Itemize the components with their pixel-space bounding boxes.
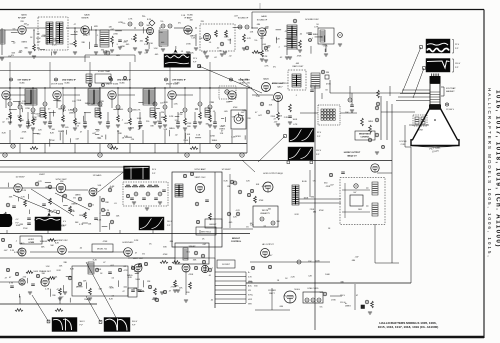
svg-text:4.7K: 4.7K [247, 38, 252, 40]
svg-text:4.7K: 4.7K [18, 253, 23, 255]
svg-text:5%: 5% [273, 66, 276, 68]
svg-text:6AQ5: 6AQ5 [263, 78, 269, 81]
svg-text:8.2K: 8.2K [265, 50, 270, 52]
svg-text:6BQ6 GT: 6BQ6 GT [347, 156, 357, 158]
svg-text:8.2K: 8.2K [109, 298, 114, 300]
svg-text:300 V: 300 V [80, 321, 86, 323]
svg-text:1.5K: 1.5K [144, 44, 149, 46]
svg-text:1.5K: 1.5K [277, 97, 282, 99]
svg-text:470K: 470K [319, 210, 324, 212]
svg-text:5%: 5% [6, 118, 9, 120]
svg-text:6CB6: 6CB6 [239, 83, 245, 85]
svg-text:1ST VIDEO IF: 1ST VIDEO IF [17, 80, 31, 82]
svg-text:HOR OUTPUT 6BQ6: HOR OUTPUT 6BQ6 [263, 173, 283, 175]
svg-text:ION TRAP: ION TRAP [446, 87, 456, 90]
svg-text:25 V: 25 V [455, 44, 460, 46]
svg-text:5%: 5% [320, 307, 323, 309]
svg-text:4.7K: 4.7K [9, 283, 14, 285]
svg-text:8.2K: 8.2K [15, 191, 20, 193]
svg-text:1MEG: 1MEG [47, 240, 53, 242]
svg-text:470K: 470K [297, 56, 302, 58]
svg-text:100K: 100K [33, 271, 38, 273]
svg-text:35 V: 35 V [317, 132, 322, 134]
svg-text:5%: 5% [160, 21, 163, 23]
svg-text:4.7K: 4.7K [21, 196, 26, 198]
svg-text:470K: 470K [99, 101, 104, 103]
svg-text:100K: 100K [43, 241, 48, 243]
svg-text:5%: 5% [73, 198, 76, 200]
svg-text:100K: 100K [137, 118, 142, 120]
svg-text:RECT: RECT [269, 293, 275, 295]
svg-text:8.2K: 8.2K [164, 102, 169, 104]
svg-text:100K: 100K [277, 115, 282, 117]
svg-text:270K: 270K [331, 300, 336, 302]
svg-text:4.7K: 4.7K [105, 210, 110, 212]
svg-text:4.7K: 4.7K [19, 249, 24, 251]
svg-text:2.2K: 2.2K [22, 190, 27, 192]
svg-text:VERT HOLD: VERT HOLD [201, 232, 212, 234]
svg-text:4.7K: 4.7K [79, 224, 84, 226]
svg-text:5%: 5% [142, 253, 145, 255]
svg-text:SYNC: SYNC [248, 295, 254, 297]
svg-text:8.2K: 8.2K [70, 269, 75, 271]
svg-text:MODEL 700: MODEL 700 [97, 249, 107, 251]
svg-text:2.2K: 2.2K [263, 56, 268, 58]
svg-text:5U4G: 5U4G [294, 289, 300, 291]
svg-text:GND: GND [248, 281, 253, 283]
svg-text:2.2K: 2.2K [262, 35, 267, 37]
svg-text:SOUND DISC: SOUND DISC [305, 19, 319, 21]
svg-text:100K: 100K [31, 113, 36, 115]
svg-text:100K: 100K [293, 119, 298, 121]
svg-text:SYNC AMP: SYNC AMP [194, 168, 206, 171]
svg-text:4.7K: 4.7K [38, 181, 43, 183]
svg-text:270K: 270K [19, 120, 24, 122]
svg-text:1MEG: 1MEG [69, 112, 75, 114]
svg-text:1.5K: 1.5K [181, 15, 186, 17]
svg-text:1MEG: 1MEG [345, 306, 351, 308]
svg-text:270K: 270K [209, 102, 214, 104]
svg-text:100K: 100K [325, 274, 330, 276]
svg-text:1.5K: 1.5K [173, 104, 178, 106]
svg-text:4.7K: 4.7K [236, 210, 241, 212]
svg-text:2.2K: 2.2K [45, 288, 50, 290]
svg-text:VERT OUT: VERT OUT [133, 258, 144, 260]
svg-text:POWER: POWER [268, 290, 276, 292]
svg-text:1MEG: 1MEG [84, 299, 90, 301]
svg-text:HALLICRAFTERS MODELS 1005, 100: HALLICRAFTERS MODELS 1005, 1006, 1015, [487, 88, 492, 259]
svg-text:HORIZ OUTPUT: HORIZ OUTPUT [344, 152, 361, 154]
svg-text:6AU6: 6AU6 [84, 14, 90, 17]
svg-text:2.2K: 2.2K [256, 96, 261, 98]
svg-text:5%: 5% [313, 181, 316, 183]
svg-text:2.2K: 2.2K [124, 136, 129, 138]
svg-text:6AC7: 6AC7 [277, 86, 283, 89]
svg-text:1/2 6SN7: 1/2 6SN7 [221, 169, 231, 171]
svg-text:470K: 470K [118, 22, 123, 24]
svg-text:1.5K: 1.5K [196, 135, 201, 137]
svg-text:HEIGHT: HEIGHT [209, 224, 217, 226]
svg-text:2.2K: 2.2K [284, 117, 289, 119]
svg-text:1015, 1016, 1017, 1018, 1019 (: 1015, 1016, 1017, 1018, 1019 (Ch. A11000… [378, 325, 439, 329]
svg-text:8.2K: 8.2K [74, 31, 79, 33]
svg-text:1.5K: 1.5K [149, 43, 154, 45]
svg-text:2ND VIDEO IF: 2ND VIDEO IF [62, 80, 76, 82]
svg-text:1MEG: 1MEG [71, 203, 77, 205]
svg-text:VERT OSC: VERT OSC [194, 177, 206, 179]
svg-text:WIDTH: WIDTH [262, 210, 269, 212]
svg-text:6CB6: 6CB6 [19, 83, 25, 85]
svg-text:12,500 V: 12,500 V [446, 109, 455, 111]
svg-text:100K: 100K [135, 279, 140, 281]
svg-text:1016, 1017, 1018, 1019, (Ch. A: 1016, 1017, 1018, 1019, (Ch. A11000) [495, 90, 500, 248]
svg-text:HORIZ AFC: HORIZ AFC [122, 241, 134, 244]
svg-text:1.5K: 1.5K [110, 186, 115, 188]
svg-text:100K: 100K [315, 261, 320, 263]
svg-text:BRIGHTNESS: BRIGHTNESS [359, 134, 372, 136]
svg-text:8.2K: 8.2K [224, 180, 229, 182]
svg-text:1MEG: 1MEG [75, 194, 81, 196]
svg-text:1MEG: 1MEG [58, 131, 64, 133]
svg-text:1MEG: 1MEG [79, 215, 85, 217]
svg-text:270K: 270K [171, 286, 176, 288]
svg-text:1/2 6AL5: 1/2 6AL5 [93, 174, 103, 177]
svg-text:BRIGHT: BRIGHT [232, 238, 241, 240]
svg-text:470K: 470K [187, 123, 192, 125]
svg-text:270K: 270K [83, 35, 88, 37]
svg-text:8.2K: 8.2K [134, 240, 139, 242]
svg-text:470K: 470K [22, 132, 27, 134]
svg-text:4.7K: 4.7K [128, 19, 133, 21]
svg-text:SOUND IF: SOUND IF [238, 18, 249, 20]
svg-text:8.2K: 8.2K [55, 243, 60, 245]
svg-text:4.7K: 4.7K [293, 124, 298, 126]
svg-text:270K: 270K [183, 140, 188, 142]
svg-text:470K: 470K [163, 254, 168, 256]
svg-text:6SN7: 6SN7 [39, 174, 45, 176]
svg-text:FOCUS: FOCUS [400, 141, 408, 143]
svg-text:AF OUTPUT: AF OUTPUT [262, 243, 274, 246]
svg-text:8.2K: 8.2K [57, 270, 62, 272]
svg-text:2.2K: 2.2K [97, 220, 102, 222]
svg-text:2.2K: 2.2K [68, 109, 73, 111]
svg-text:2ND IF 6CB6: 2ND IF 6CB6 [106, 84, 119, 86]
svg-text:470K: 470K [189, 274, 194, 276]
svg-text:270K: 270K [264, 28, 269, 30]
svg-text:VIDEO DET: VIDEO DET [238, 80, 250, 82]
svg-text:6CB6: 6CB6 [119, 83, 125, 85]
svg-text:4.7K: 4.7K [136, 109, 141, 111]
svg-text:470K: 470K [52, 45, 57, 47]
svg-text:30 V: 30 V [152, 169, 157, 171]
svg-text:HORIZ: HORIZ [28, 239, 35, 241]
svg-text:1.5K: 1.5K [191, 37, 196, 39]
svg-text:5%: 5% [13, 29, 16, 31]
svg-text:270K: 270K [310, 209, 315, 211]
svg-text:6AL5: 6AL5 [20, 242, 26, 245]
svg-text:100K: 100K [36, 38, 41, 40]
svg-text:B+: B+ [248, 272, 250, 274]
svg-text:CONTROL: CONTROL [361, 137, 371, 139]
svg-text:5%: 5% [178, 22, 181, 24]
svg-text:1.5K: 1.5K [45, 266, 50, 268]
svg-text:5%: 5% [219, 50, 222, 52]
svg-text:4.7K: 4.7K [124, 270, 129, 272]
svg-text:270K: 270K [113, 34, 118, 36]
svg-text:470K: 470K [326, 186, 331, 188]
svg-text:270K: 270K [97, 113, 102, 115]
svg-text:110 V: 110 V [316, 150, 322, 152]
svg-text:25 V: 25 V [193, 58, 198, 60]
svg-text:100K: 100K [57, 100, 62, 102]
svg-text:8.2K: 8.2K [93, 259, 98, 261]
svg-text:470K: 470K [210, 136, 215, 138]
svg-text:470K: 470K [233, 107, 238, 109]
svg-text:470K: 470K [53, 41, 58, 43]
svg-text:2.2K: 2.2K [178, 114, 183, 116]
svg-text:8.2K: 8.2K [19, 103, 24, 105]
svg-text:270K: 270K [97, 269, 102, 271]
svg-text:8.2K: 8.2K [295, 214, 300, 216]
svg-text:SOCKET: SOCKET [222, 264, 231, 266]
svg-text:8.2K: 8.2K [50, 132, 55, 134]
svg-text:1.5K: 1.5K [153, 48, 158, 50]
svg-text:8.2K: 8.2K [130, 128, 135, 130]
svg-text:3RD VIDEO IF: 3RD VIDEO IF [117, 80, 131, 82]
svg-text:130 V: 130 V [455, 63, 461, 65]
svg-text:470K: 470K [76, 123, 81, 125]
svg-text:SOUND IF: SOUND IF [257, 20, 268, 22]
svg-text:BLUE: BLUE [302, 181, 307, 183]
svg-text:470K: 470K [262, 186, 267, 188]
svg-text:RF AMP: RF AMP [18, 17, 27, 20]
svg-text:MIXER: MIXER [82, 18, 89, 20]
svg-text:2.2K: 2.2K [291, 277, 296, 279]
svg-text:6CB6: 6CB6 [187, 15, 193, 17]
svg-text:SWEEP: SWEEP [189, 246, 197, 248]
svg-text:1.5K: 1.5K [231, 137, 236, 139]
svg-text:470K: 470K [103, 241, 108, 243]
svg-text:8.2K: 8.2K [2, 133, 7, 135]
svg-text:6AU6: 6AU6 [261, 15, 267, 18]
svg-text:HOR: HOR [248, 299, 253, 301]
svg-text:2.2K: 2.2K [131, 38, 136, 40]
svg-text:5%: 5% [254, 40, 257, 42]
svg-text:1/2 6SN7: 1/2 6SN7 [15, 177, 25, 179]
svg-text:3RD IF 6CB6: 3RD IF 6CB6 [166, 84, 179, 86]
svg-text:6CB6: 6CB6 [64, 83, 70, 85]
svg-text:270K: 270K [7, 99, 12, 101]
svg-text:VIDEO AMP: VIDEO AMP [272, 82, 285, 85]
svg-text:270K: 270K [23, 228, 28, 230]
svg-text:1MEG: 1MEG [85, 103, 91, 105]
svg-text:4.5 MC TRAP: 4.5 MC TRAP [98, 70, 111, 73]
svg-text:120 V: 120 V [340, 295, 346, 297]
svg-text:1MEG: 1MEG [211, 140, 217, 142]
svg-text:5%: 5% [272, 100, 275, 102]
svg-text:470K: 470K [120, 46, 125, 48]
svg-text:1ST IF 6CB6: 1ST IF 6CB6 [51, 84, 64, 86]
svg-text:1MEG: 1MEG [313, 34, 319, 36]
svg-text:4TH VIDEO IF: 4TH VIDEO IF [172, 79, 186, 82]
svg-text:RATIO DET: RATIO DET [293, 65, 305, 68]
svg-text:YOKE: YOKE [417, 130, 423, 132]
svg-text:8.2K: 8.2K [128, 277, 133, 279]
svg-text:5%: 5% [175, 120, 178, 122]
svg-text:8.2K: 8.2K [147, 19, 152, 21]
svg-text:1.5K: 1.5K [219, 126, 224, 128]
svg-text:CONTROL: CONTROL [231, 241, 242, 243]
svg-text:470K: 470K [326, 83, 331, 85]
svg-text:300 V: 300 V [132, 321, 138, 323]
svg-text:5%: 5% [98, 138, 101, 140]
svg-text:1MEG: 1MEG [68, 210, 74, 212]
svg-text:270K: 270K [50, 140, 55, 142]
svg-text:4.7K: 4.7K [314, 26, 319, 28]
svg-text:270K: 270K [270, 116, 275, 118]
svg-text:8.2K: 8.2K [169, 116, 174, 118]
svg-text:1MEG: 1MEG [21, 41, 27, 43]
svg-text:MAGNET: MAGNET [446, 90, 455, 93]
svg-text:270K: 270K [77, 100, 82, 102]
svg-text:470K: 470K [259, 200, 264, 202]
svg-text:5%: 5% [159, 46, 162, 48]
svg-text:100K: 100K [224, 36, 229, 38]
svg-text:4.7K: 4.7K [264, 66, 269, 68]
svg-text:6AG5: 6AG5 [21, 14, 27, 17]
svg-text:1.5K: 1.5K [240, 120, 245, 122]
svg-text:1.5K: 1.5K [75, 125, 80, 127]
svg-text:LINEARITY: LINEARITY [260, 212, 271, 215]
svg-text:100K: 100K [304, 197, 309, 199]
svg-text:1MEG: 1MEG [368, 121, 374, 123]
svg-text:LINE CORD: LINE CORD [308, 288, 319, 290]
svg-text:100K: 100K [257, 53, 262, 55]
svg-text:1MEG: 1MEG [169, 128, 175, 130]
svg-text:SPKR: SPKR [235, 136, 241, 138]
svg-text:140 V: 140 V [167, 221, 173, 223]
svg-text:270K: 270K [186, 43, 191, 45]
svg-text:470K: 470K [59, 188, 64, 190]
svg-text:270K: 270K [25, 108, 30, 110]
